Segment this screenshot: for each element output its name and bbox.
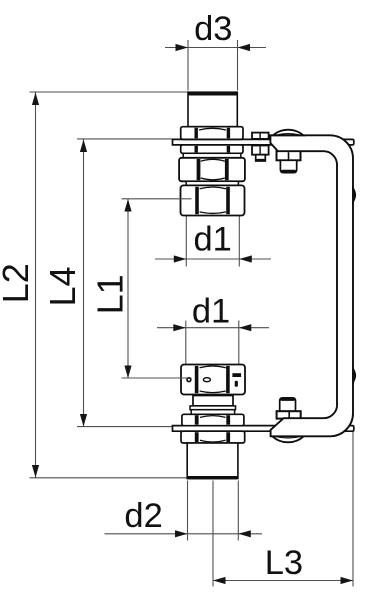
svg-text:d1: d1 [192, 293, 230, 331]
svg-text:L2: L2 [0, 263, 36, 303]
svg-text:d1: d1 [194, 221, 232, 259]
svg-text:L4: L4 [42, 266, 83, 306]
svg-text:d3: d3 [194, 10, 232, 48]
svg-text:d2: d2 [124, 497, 162, 535]
svg-text:L3: L3 [265, 544, 303, 582]
svg-text:L1: L1 [90, 274, 131, 314]
